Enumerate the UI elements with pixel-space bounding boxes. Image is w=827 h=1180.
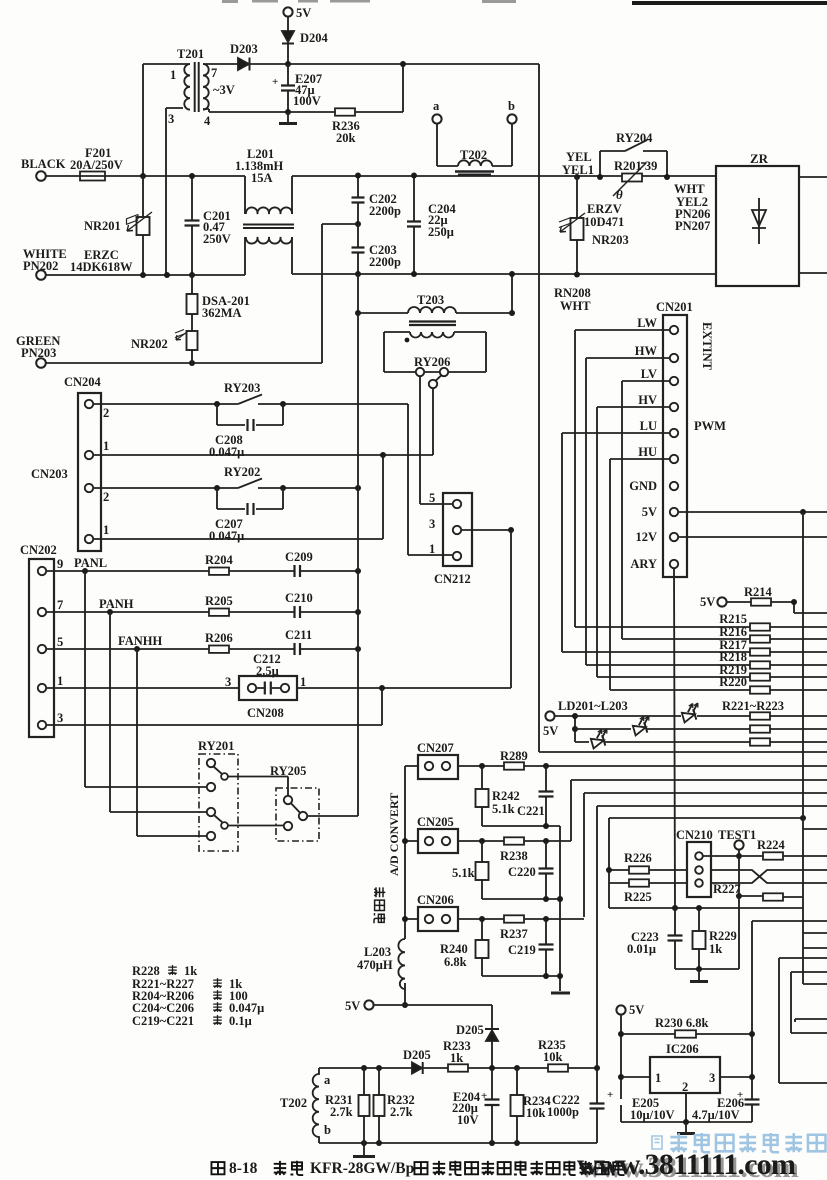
svg-text:2: 2 [103, 406, 109, 420]
wire: PANH vertical to RY201 [110, 612, 207, 812]
resistor R240 (vertical) [481, 919, 483, 976]
svg-text:CN210: CN210 [676, 828, 713, 842]
capacitor C207 bypass loop [217, 488, 283, 509]
relay RY204 contact arm [625, 140, 647, 151]
terminal GREEN [36, 358, 46, 368]
wire: top AC (BLACK) line [46, 175, 716, 177]
svg-text:HU: HU [638, 445, 657, 459]
svg-text:NR203: NR203 [592, 233, 629, 247]
capacitor C222 [596, 1068, 598, 1143]
svg-text:C221: C221 [517, 804, 545, 818]
svg-text:10μ/10V: 10μ/10V [630, 1108, 675, 1122]
svg-text:NR201: NR201 [84, 219, 121, 233]
svg-text:D204: D204 [300, 31, 329, 45]
svg-text:7: 7 [211, 66, 217, 80]
connector CN206 box [418, 907, 458, 931]
svg-text:R214: R214 [744, 585, 773, 599]
pin HW [670, 354, 678, 362]
wire: edge line y793 [584, 792, 827, 794]
wire: drop vertical to R238 [570, 780, 572, 841]
wire: LV pin lead [622, 380, 670, 382]
wire: RY205 output to bus x358 [308, 815, 359, 817]
svg-text:LD201~L203: LD201~L203 [558, 699, 628, 713]
svg-text:RN208: RN208 [554, 286, 591, 300]
fuse F201 [80, 172, 105, 181]
wire: CN202 pin1 line to CN208 and on to riser [47, 687, 512, 689]
resistor R224 row [703, 855, 827, 857]
resistor R237 [504, 915, 524, 922]
svg-text:5: 5 [429, 491, 435, 505]
transformer T202 (top, current transformer) [432, 114, 441, 123]
node T203 secondary polarity dot [405, 338, 410, 343]
LED LD201 [589, 728, 611, 749]
wire: R236 right vertical to 5V rail [402, 64, 404, 112]
wire: CN202 pin3 line [47, 688, 383, 725]
LED LD203 row with R221 [575, 715, 827, 717]
wire: RY206 loop [384, 332, 486, 372]
svg-text:100V: 100V [293, 94, 321, 108]
scan artifacts: cropped text remnants top [222, 0, 516, 3]
svg-text:C219~C221: C219~C221 [132, 1014, 194, 1028]
resistor R231 (vertical) [363, 1068, 365, 1143]
ground below R229 [698, 969, 700, 980]
wire: CN203 pin1 line up join [94, 455, 384, 539]
choke L201 windings [245, 176, 292, 275]
LED LD201 row with R223 [575, 741, 827, 743]
svg-text:D205: D205 [456, 1023, 484, 1037]
capacitor C223 [674, 908, 676, 969]
connector CN210 box [687, 842, 711, 897]
resistor R218 row [586, 664, 827, 666]
terminal WHITE [36, 270, 46, 280]
wire: TEST1 vertical [738, 850, 740, 970]
resistor R225 row [609, 882, 687, 884]
svg-text:FANHH: FANHH [118, 634, 162, 648]
resistor R227 row [739, 896, 803, 897]
capacitor C212 inside CN208 [257, 687, 281, 689]
watermark CJK light blue [652, 1133, 826, 1152]
svg-text:CN208: CN208 [247, 706, 284, 720]
wire: T203 left drop from AC line [357, 274, 359, 313]
svg-text:+: + [737, 1089, 743, 1101]
diode D205 (horizontal) [412, 1063, 422, 1074]
svg-text:PN207: PN207 [675, 219, 710, 233]
wire: bottom rail y1143 [319, 1142, 597, 1144]
wire: CN207 right lead to R289 [458, 765, 504, 767]
labels section C [543, 300, 786, 956]
connector CN208 box [239, 676, 297, 700]
svg-text:R225: R225 [624, 890, 652, 904]
fuse resistor DSA-201 [191, 274, 193, 331]
wire: IC206 pin1 lead [621, 1076, 650, 1078]
node D204 / rail [285, 61, 291, 67]
svg-text:R226: R226 [624, 851, 652, 865]
svg-text:C210: C210 [285, 591, 313, 605]
svg-text:2200p: 2200p [369, 204, 401, 218]
svg-text:RY205: RY205 [270, 764, 306, 778]
terminal 5V (LED feed) [545, 711, 554, 720]
terminal BLACK [36, 171, 46, 181]
wire: edge line y958 corner down x779 to y1083 [779, 958, 827, 1083]
IC IC206 box [650, 1057, 720, 1093]
node pin1/CN203 pin1 join [380, 452, 386, 458]
wire: HW pin lead [586, 357, 670, 359]
wire: RY206 moving contact down to pin1 line [432, 389, 434, 456]
LED LD202 row with R222 [575, 728, 827, 730]
wire: HU vertical [609, 459, 611, 690]
svg-text:2.7k: 2.7k [390, 1105, 413, 1119]
pin HV [670, 403, 678, 411]
wire: LU pin lead [562, 432, 670, 434]
wire: bus x539 turn right to edge [539, 751, 827, 753]
svg-text:NR202: NR202 [131, 337, 168, 351]
wire: bus from 5V rail down the page (x=539) [538, 64, 540, 752]
svg-text:IC206: IC206 [666, 1042, 699, 1056]
pin CN202-3 [38, 721, 46, 729]
svg-text:1: 1 [655, 1071, 661, 1085]
svg-text:R230 6.8k: R230 6.8k [655, 1016, 709, 1030]
svg-text:R216: R216 [719, 625, 747, 639]
pin CN203-1 [85, 535, 93, 543]
capacitor C204 [413, 176, 415, 275]
wire: R289 line across to edge [546, 765, 827, 767]
svg-text:1: 1 [103, 523, 109, 537]
capacitor C221 [545, 766, 547, 826]
svg-text:WHT: WHT [560, 299, 591, 313]
resistor R226 row [609, 869, 687, 871]
svg-text:5V: 5V [543, 724, 558, 738]
svg-text:PN203: PN203 [21, 346, 56, 360]
wire: R242/C221 bottom rail to gnd chain [482, 826, 560, 991]
varistor NR202 [187, 331, 198, 350]
pin 12V [670, 533, 678, 541]
resistor R289 [504, 762, 524, 769]
transformer T201 right winding [203, 64, 209, 110]
wire: edge line y806 [597, 805, 827, 807]
pin CN202-9 [38, 567, 46, 575]
pin names CN201 [629, 316, 657, 571]
svg-text:PANL: PANL [74, 556, 107, 570]
svg-text:CN206: CN206 [417, 893, 454, 907]
resistor R230 row [621, 1033, 752, 1035]
svg-text:5V: 5V [629, 1003, 644, 1017]
svg-text:www.3811111.com: www.3811111.com [577, 1148, 796, 1180]
svg-text:+: + [272, 76, 278, 88]
svg-text:C209: C209 [285, 550, 313, 564]
terminal 5V (IC206) [616, 1005, 625, 1014]
svg-text:HW: HW [635, 344, 658, 358]
wire: HW vertical [585, 358, 587, 665]
wire: RY201 arm1 to RY205 [228, 777, 288, 796]
connector CN202 box [29, 559, 54, 737]
ground T202 rail [363, 1143, 365, 1155]
node YEL1 [574, 174, 580, 180]
wire: ARY vertical [674, 569, 675, 909]
svg-text:8-18: 8-18 [229, 1160, 258, 1177]
svg-text:+: + [481, 1090, 487, 1102]
svg-text:1000p: 1000p [547, 1105, 579, 1119]
node NR201 bottom [140, 272, 146, 278]
resistor R239 5.1k (vertical) [481, 841, 483, 899]
svg-text:ARY: ARY [630, 557, 657, 571]
svg-text:b: b [508, 99, 515, 113]
capacitor C220 [545, 841, 547, 899]
svg-text:BLACK: BLACK [21, 157, 66, 171]
svg-text:1: 1 [103, 439, 109, 453]
pin GND [670, 482, 678, 490]
svg-text:7: 7 [57, 598, 63, 612]
svg-text:C219: C219 [508, 943, 536, 957]
scan artifacts: dark bar at top right edge [632, 1, 827, 5]
svg-text:14DK618W: 14DK618W [70, 260, 133, 274]
wire: D203 to 5V node and across [250, 63, 539, 65]
resistor R232 (vertical) [378, 1068, 380, 1143]
connector CN205 box [418, 829, 458, 853]
wire: CN203 pin2 line through RY202 [94, 487, 359, 489]
svg-text:R237: R237 [500, 927, 528, 941]
wire: edge line y780 [571, 779, 827, 781]
relay RY206 contacts [416, 368, 424, 376]
transformer T202 bottom winding [313, 1068, 319, 1143]
wire: stubs from x803 to edge [803, 829, 827, 948]
wire: PANL row with R204 C209 [47, 570, 359, 572]
relay RY203 arm [238, 395, 262, 405]
svg-text:EXTINT: EXTINT [700, 322, 714, 371]
notes block [132, 964, 264, 1028]
wire: LW vertical [574, 330, 576, 627]
svg-text:R229: R229 [709, 929, 737, 943]
svg-text:2.5μ: 2.5μ [256, 664, 279, 678]
svg-text:R221~R223: R221~R223 [722, 699, 784, 713]
svg-text:R218: R218 [719, 650, 747, 664]
resistor R236 [288, 111, 403, 113]
relay RY202 arm [238, 479, 262, 489]
svg-text:RY204: RY204 [616, 131, 653, 145]
pin CN202-1 [38, 684, 46, 692]
wire: RY206 left contact to CN212 pin5 [420, 377, 452, 505]
svg-text:2200p: 2200p [369, 255, 401, 269]
svg-text:PANH: PANH [99, 597, 134, 611]
capacitor C201 [191, 176, 193, 275]
svg-text:3: 3 [709, 1071, 715, 1085]
pin CN212-1 [453, 552, 461, 560]
relay RY204 bypass loop [600, 151, 667, 177]
svg-text:R215: R215 [719, 612, 747, 626]
svg-text:R242: R242 [492, 789, 520, 803]
svg-text:9: 9 [57, 557, 63, 571]
svg-text:D203: D203 [230, 42, 258, 56]
svg-text:R240: R240 [440, 942, 468, 956]
pin CN204-1 [85, 451, 93, 459]
wire: CN206 leads [405, 918, 504, 920]
resistor R216 row [622, 638, 827, 640]
svg-text:R227: R227 [713, 882, 741, 896]
svg-text:D205: D205 [403, 1048, 431, 1062]
node GREEN/NR202 [189, 360, 195, 366]
svg-text:+: + [607, 1089, 613, 1101]
svg-text:R289: R289 [500, 749, 528, 763]
svg-text:0.01μ: 0.01μ [627, 942, 656, 956]
connector CN212 box [443, 493, 472, 566]
label sensor (CJK, rotated) [374, 887, 385, 923]
capacitor E206 [751, 1077, 753, 1122]
wire: riser x511 down to CN208 line [510, 530, 512, 688]
wire: CN210 crossover to edge [711, 870, 827, 883]
svg-text:RY202: RY202 [224, 465, 260, 479]
svg-text:R206: R206 [205, 631, 233, 645]
pin LV [670, 377, 678, 385]
svg-text:2.7k: 2.7k [330, 1105, 353, 1119]
wire: C202/C203 midpoint tap [322, 224, 358, 363]
capacitor C203 [357, 224, 359, 274]
svg-text:YEL: YEL [566, 150, 592, 164]
wire: IC206 pin2 stem [685, 1093, 687, 1122]
wire: PANL vertical to RY201 [85, 571, 207, 787]
wire: R239/C220 bottom rail [482, 898, 560, 900]
resistor R217 row [562, 651, 827, 653]
transformer T203 secondary [410, 332, 454, 338]
wire: FANHH row with R206 C211 [47, 648, 359, 650]
svg-text:CN204: CN204 [64, 375, 102, 389]
svg-text:b: b [324, 1123, 331, 1137]
svg-text:CN201: CN201 [656, 300, 693, 314]
svg-text:12V: 12V [635, 530, 657, 544]
node junction F201/NR201 [140, 173, 146, 179]
wire: edge line y818 [609, 817, 803, 819]
pin LW [670, 326, 678, 334]
ground below E207 [287, 112, 289, 122]
svg-text:CN207: CN207 [417, 741, 454, 755]
svg-text:ZR: ZR [750, 151, 769, 166]
pin CN212-5 [453, 500, 461, 508]
pin ARY [670, 560, 678, 568]
wire: rail y969 [675, 968, 739, 970]
relay RY205 box (dashed) [276, 788, 319, 841]
svg-text:1: 1 [57, 674, 63, 688]
wire: 5V bottom line [374, 1005, 493, 1029]
svg-text:LW: LW [637, 316, 657, 330]
svg-text:4: 4 [204, 114, 211, 128]
svg-text:A/D CONVERT: A/D CONVERT [387, 793, 401, 876]
svg-text:3: 3 [225, 675, 231, 689]
svg-text:R205: R205 [205, 594, 233, 608]
svg-text:YEL1: YEL1 [562, 163, 594, 177]
pin CN202-7 [38, 608, 46, 616]
connector CN201 box [663, 315, 687, 577]
svg-text:5.1k: 5.1k [452, 866, 475, 880]
svg-text:T201: T201 [177, 47, 204, 61]
resistor R238 [504, 837, 524, 844]
varistor NR201 [142, 176, 144, 275]
resistor R219 row [597, 676, 827, 678]
wire: edge line y1019 stub [795, 1019, 827, 1022]
resistor R242 (vertical) [481, 766, 483, 826]
wire: CN204 pin1 line [94, 454, 434, 456]
svg-text:KFR-28GW/Bp: KFR-28GW/Bp [310, 1160, 414, 1177]
resistor R234 (vertical) [516, 1068, 518, 1143]
pin LU [670, 429, 678, 437]
wire: RY203 output corner to CN212 pin1 [408, 404, 452, 555]
svg-text:5V: 5V [296, 6, 311, 20]
svg-text:R224: R224 [757, 838, 786, 852]
svg-text:470μH: 470μH [357, 958, 393, 972]
svg-text:HV: HV [638, 393, 657, 407]
wire: bottom AC (WHITE) line [46, 274, 716, 275]
wire: bus x358 vertical [357, 313, 359, 816]
svg-text:1: 1 [429, 542, 435, 556]
terminal 5V top [283, 7, 292, 16]
svg-text:10D471: 10D471 [584, 215, 624, 229]
svg-text:15A: 15A [251, 171, 273, 185]
diode D203 [238, 58, 249, 70]
wire: HV vertical [596, 407, 598, 677]
LED LD203 [680, 702, 702, 723]
svg-text:CN202: CN202 [20, 543, 57, 557]
relay RY205 contacts [284, 796, 292, 804]
svg-text:0.047μ: 0.047μ [229, 1001, 264, 1015]
svg-text:θ: θ [616, 187, 623, 202]
wire: rail y908 [609, 907, 803, 909]
wire: 12V pin line to edge [679, 536, 827, 538]
transformer T203 primary [358, 312, 512, 314]
svg-text:3: 3 [168, 112, 174, 126]
svg-text:20k: 20k [336, 131, 356, 145]
wire: R240/C219 bottom rail [482, 975, 560, 977]
svg-text:CN205: CN205 [417, 815, 454, 829]
wire: T201 pin1 lead [143, 63, 190, 65]
wire: T201 pin3 drop to WHITE line [166, 108, 183, 275]
relay RY201 box (dashed) [199, 754, 238, 851]
svg-text:0.047μ: 0.047μ [209, 445, 244, 459]
svg-text:3: 3 [57, 711, 63, 725]
svg-text:3: 3 [429, 517, 435, 531]
wire: LU vertical ending at R217 row [561, 433, 563, 652]
capacitor C208 bypass loop [217, 404, 283, 425]
capacitor E204 [491, 1068, 493, 1143]
svg-text:C211: C211 [285, 628, 312, 642]
svg-text:a: a [324, 1073, 331, 1087]
wire: RY201 arm2 to RY205 [228, 825, 284, 827]
varistor NR203 [576, 177, 578, 275]
terminal TEST1 [734, 840, 743, 849]
wire: edge line y921 corner to x752 vertical [752, 921, 827, 1077]
svg-text:ERZV: ERZV [587, 202, 622, 216]
svg-text:1k: 1k [184, 964, 197, 978]
ground IC206 [685, 1122, 687, 1132]
wire: T201 pin7 lead to D203 [203, 63, 238, 65]
resistor R233 [448, 1064, 468, 1071]
wire: drop vertical to R235/C222 [596, 806, 598, 1068]
svg-text:CN212: CN212 [434, 572, 471, 586]
wire: T201 pin1 drop to BLACK line [142, 64, 144, 176]
ground gnd chain [551, 992, 570, 995]
wire: LV vertical ending at R216 row [621, 381, 623, 639]
labels section B [20, 293, 471, 778]
svg-text:a: a [433, 99, 440, 113]
transformer T201 left winding [184, 64, 190, 110]
svg-text:L203: L203 [364, 945, 391, 959]
wire: 5V pin line to edge [679, 511, 827, 513]
svg-text:WHT: WHT [674, 182, 705, 196]
svg-text:6.8k: 6.8k [444, 955, 467, 969]
diode inside ZR [752, 198, 766, 244]
terminal 5V (R214) [717, 597, 726, 606]
svg-text:T202: T202 [460, 148, 487, 162]
pin HU [670, 455, 678, 463]
svg-text:R220: R220 [719, 675, 747, 689]
svg-text:RY206: RY206 [414, 355, 450, 369]
svg-text:C204~C206: C204~C206 [132, 1001, 194, 1015]
